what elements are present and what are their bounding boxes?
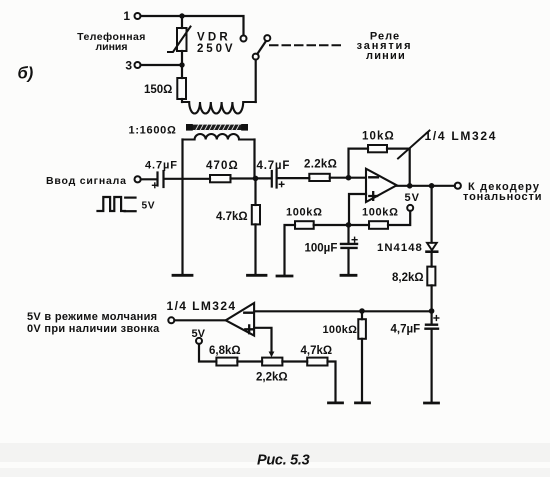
wire U2 output (175, 319, 226, 321)
svg-text:5V: 5V (142, 201, 156, 212)
wire lower bus y311 (254, 310, 431, 312)
resistor 100kΩ right (369, 221, 388, 229)
node top junction (179, 13, 184, 18)
label К декодеру тональности (463, 181, 542, 203)
wire terminal 3 to vdr node (141, 64, 183, 66)
transformer core (186, 124, 248, 131)
pointer line U1 (398, 131, 430, 159)
wire 4.7k to ground (328, 362, 336, 402)
node bus diode leg (429, 308, 435, 314)
svg-text:Рис. 5.3: Рис. 5.3 (257, 453, 310, 469)
op-amp U1 (366, 169, 397, 202)
wire 5V to 100k right (388, 211, 410, 225)
svg-text:2,2kΩ: 2,2kΩ (256, 372, 288, 384)
svg-text:б): б) (18, 65, 34, 83)
svg-text:4.7µF: 4.7µF (257, 160, 291, 172)
wire 5V bottom to 6.8k (199, 344, 216, 362)
resistor 470Ω (210, 175, 231, 182)
5V terminal bottom (196, 338, 202, 344)
wire 100k right to node (349, 224, 370, 226)
output terminal (455, 183, 461, 189)
input terminal (135, 176, 141, 182)
capacitor 100μF (341, 225, 357, 274)
resistor 150Ω (177, 65, 186, 102)
wire secondary left down to ground (181, 140, 183, 274)
wire U2 plus input to pot wiper (254, 328, 271, 353)
resistor 8.2kΩ (427, 267, 435, 311)
wire 2.2k to opamp (330, 177, 366, 179)
resistor 10kΩ (368, 145, 387, 152)
label Реле занятия линии (357, 31, 413, 62)
wire output (397, 185, 455, 187)
ground 100k left (277, 275, 292, 278)
terminal 3 (135, 62, 141, 68)
resistor 100kΩ left (295, 221, 314, 229)
resistor 4.7kΩ top (252, 179, 260, 274)
ground 100k bottom (356, 401, 370, 404)
svg-text:2.2kΩ: 2.2kΩ (304, 159, 337, 171)
op-amp U2 (226, 303, 254, 336)
node bus 100k bottom (359, 308, 365, 314)
resistor 6.8kΩ (216, 358, 237, 366)
wire secondary right down (253, 140, 255, 179)
transformer T1 secondary (183, 134, 255, 140)
svg-text:1: 1 (123, 9, 130, 23)
svg-text:1/4 LM324: 1/4 LM324 (167, 299, 237, 313)
label VDR 250V (197, 32, 235, 56)
wire node to C2 (256, 177, 272, 179)
svg-text:4,7kΩ: 4,7kΩ (301, 345, 333, 357)
svg-text:100µF: 100µF (305, 243, 338, 255)
squarewave symbol (98, 197, 136, 211)
wire noninverting input (349, 194, 366, 225)
potentiometer 2.2kΩ (262, 358, 282, 366)
resistor 2.2kΩ top (309, 174, 330, 181)
wire pot to 4.7k (282, 360, 307, 362)
wire cap to transformer line (165, 178, 211, 180)
svg-text:100kΩ: 100kΩ (362, 207, 399, 219)
varistor VDR 250V (168, 16, 191, 65)
diode 1N4148 (427, 186, 438, 267)
node feedback-output (407, 183, 413, 189)
svg-text:4,7µF: 4,7µF (391, 324, 421, 336)
output terminal U2 (168, 317, 174, 323)
svg-text:100kΩ: 100kΩ (323, 324, 358, 336)
svg-text:3: 3 (125, 59, 132, 73)
capacitor 4.7μF right (426, 311, 439, 402)
svg-text:4.7µF: 4.7µF (145, 160, 178, 172)
svg-text:4.7kΩ: 4.7kΩ (216, 211, 248, 223)
ground 4.7k bottom (329, 401, 343, 404)
capacitor C2 4.7μF (272, 170, 284, 188)
wire feedback right down (387, 149, 410, 186)
wire 6.8k to pot (237, 360, 262, 362)
svg-text:6,8kΩ: 6,8kΩ (209, 345, 241, 357)
svg-text:1:1600Ω: 1:1600Ω (129, 125, 177, 137)
wire 100k left to ground (285, 225, 296, 275)
resistor 100kΩ bottom (358, 311, 366, 401)
svg-text:0V при наличии звонка: 0V при наличии звонка (27, 323, 160, 335)
svg-text:5V в режиме молчания: 5V в режиме молчания (27, 311, 157, 323)
wire 100k left to node (314, 224, 349, 226)
svg-text:10kΩ: 10kΩ (362, 131, 395, 143)
wire top from terminal 1 to switch corner (141, 16, 244, 35)
label Телефонная линия (77, 31, 146, 53)
svg-text:1/4 LM324: 1/4 LM324 (425, 129, 498, 143)
node noninv junction (346, 222, 352, 228)
transformer T1 primary (183, 102, 256, 114)
svg-text:тональности: тональности (463, 191, 542, 203)
svg-text:Ввод сигнала: Ввод сигнала (46, 175, 127, 187)
svg-text:VDR: VDR (197, 32, 231, 44)
wire input to cap (141, 178, 157, 180)
wire switch to primary (255, 60, 257, 102)
ground 100μF (341, 274, 356, 277)
wire C2 to 2.2k (278, 177, 310, 179)
svg-text:линия: линия (95, 41, 127, 53)
wire feedback up and over (349, 149, 369, 178)
svg-text:5V: 5V (405, 192, 420, 204)
wire 470 to node (231, 177, 256, 179)
svg-text:100kΩ: 100kΩ (286, 207, 323, 219)
5V terminal mid (407, 205, 413, 211)
capacitor C1 4.7μF (153, 171, 164, 188)
resistor 4.7kΩ bottom (307, 358, 327, 366)
svg-text:250V: 250V (197, 43, 235, 55)
ground secondary left (173, 274, 192, 277)
label 5V в режиме молчания (27, 311, 160, 335)
node vdr-150 junction (179, 62, 184, 67)
relay switch contacts (241, 35, 271, 60)
node output-diode (429, 183, 435, 189)
node 470/4.7k junction (253, 176, 259, 182)
svg-text:8,2kΩ: 8,2kΩ (392, 272, 424, 284)
svg-text:470Ω: 470Ω (206, 160, 239, 172)
pot wiper arrow (269, 352, 275, 358)
svg-text:1N4148: 1N4148 (377, 242, 423, 254)
node inverting input (346, 175, 352, 181)
ground 4.7μF right (425, 402, 439, 405)
svg-text:линии: линии (366, 50, 406, 62)
terminal 1 (135, 13, 141, 19)
svg-text:150Ω: 150Ω (144, 84, 172, 96)
ground 4.7k top (248, 274, 267, 277)
wire relay dashed link (270, 44, 345, 46)
